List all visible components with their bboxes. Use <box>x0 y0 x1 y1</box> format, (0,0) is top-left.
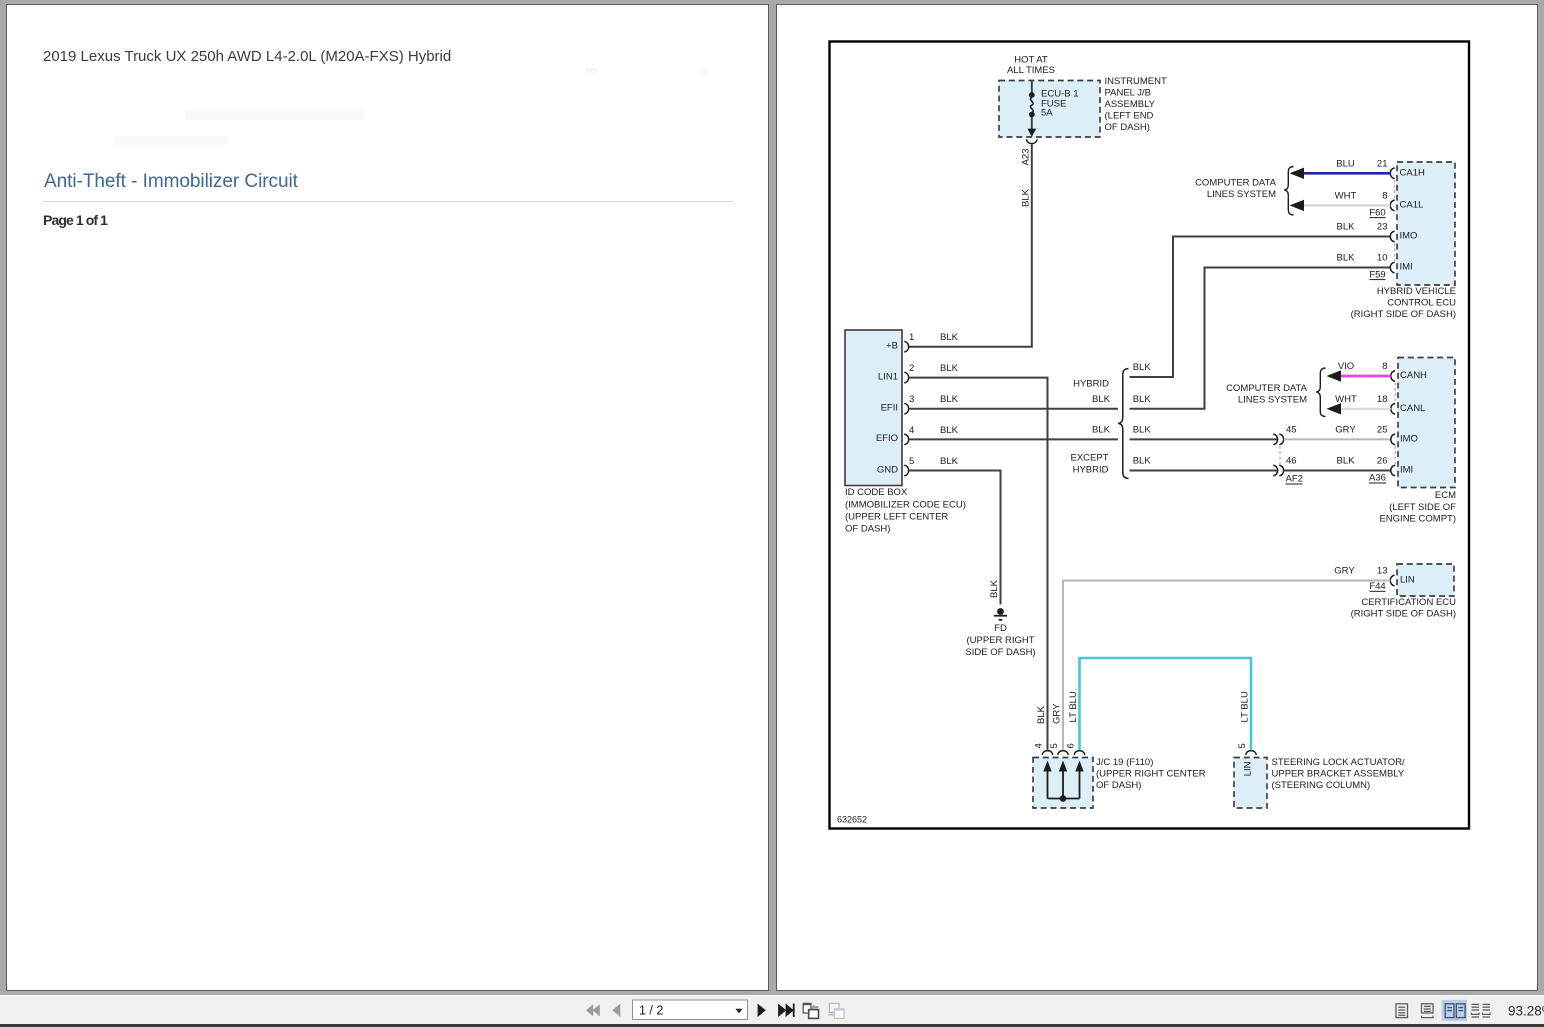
svg-text:WHT: WHT <box>1335 394 1357 405</box>
svg-text:8: 8 <box>1382 361 1387 372</box>
svg-text:(IMMOBILIZER CODE ECU): (IMMOBILIZER CODE ECU) <box>845 499 966 510</box>
svg-text:BLK: BLK <box>1092 394 1111 405</box>
svg-text:13: 13 <box>1377 566 1388 577</box>
svg-text:10: 10 <box>1377 253 1388 264</box>
svg-text:+B: +B <box>886 341 898 352</box>
HV ECU pin labels <box>1400 168 1425 273</box>
svg-text:5: 5 <box>1049 743 1060 748</box>
svg-text:ALL TIMES: ALL TIMES <box>1007 65 1055 76</box>
J/C 19 box (dashed) <box>1033 758 1093 809</box>
HV ECU pin arcs <box>1390 168 1394 273</box>
svg-text:5A: 5A <box>1041 108 1053 119</box>
svg-text:WHT: WHT <box>1335 191 1357 202</box>
svg-text:(RIGHT SIDE OF DASH): (RIGHT SIDE OF DASH) <box>1351 609 1456 620</box>
svg-text:A23: A23 <box>1021 149 1032 166</box>
svg-text:LINES SYSTEM: LINES SYSTEM <box>1207 189 1276 200</box>
svg-text:EXCEPT: EXCEPT <box>1070 452 1108 463</box>
svg-text:CONTROL ECU: CONTROL ECU <box>1387 298 1456 309</box>
arrow VIO <box>1327 370 1342 381</box>
wire EFII pin3 to brace <box>909 408 1118 410</box>
svg-text:CERTIFICATION ECU: CERTIFICATION ECU <box>1361 597 1456 608</box>
label ECM (LEFT SIDE OF ENGINE COMPT) <box>1379 490 1456 524</box>
page number combo box <box>633 1000 748 1020</box>
svg-text:93.28%: 93.28% <box>1508 1003 1544 1018</box>
arrow WHT (ECM) <box>1327 403 1342 414</box>
svg-text:BLK: BLK <box>1092 425 1111 436</box>
svg-text:LT BLU: LT BLU <box>1068 691 1079 722</box>
svg-text:UPPER BRACKET ASSEMBLY: UPPER BRACKET ASSEMBLY <box>1272 769 1405 780</box>
svg-text:EFII: EFII <box>881 403 898 414</box>
svg-text:CANH: CANH <box>1400 370 1427 381</box>
ground symbol FD <box>965 608 1035 658</box>
inline connector 46 (AF2) <box>1273 465 1283 476</box>
svg-text:8: 8 <box>1382 191 1387 202</box>
wire WHT CANL <box>1340 408 1391 410</box>
certification ECU pin arc <box>1390 575 1394 586</box>
svg-text:2: 2 <box>909 363 914 374</box>
ID code box pin arcs <box>904 341 908 476</box>
label ID CODE BOX <box>845 487 966 534</box>
ECM pin arcs <box>1391 371 1395 476</box>
svg-text:GND: GND <box>877 464 898 475</box>
svg-text:LINES SYSTEM: LINES SYSTEM <box>1238 395 1307 406</box>
svg-text:632652: 632652 <box>837 815 867 825</box>
svg-text:46: 46 <box>1286 456 1297 467</box>
svg-text:EFIO: EFIO <box>876 433 898 444</box>
J/C 19 pin arcs <box>1042 751 1085 755</box>
single page layout icon <box>1396 1004 1408 1018</box>
certification ECU box (dashed) <box>1397 564 1454 596</box>
svg-text:OF DASH): OF DASH) <box>1105 122 1150 133</box>
wire EFIO pin4 to brace <box>909 438 1118 440</box>
branch wire except-hybrid to connector 45 <box>1130 438 1278 440</box>
svg-text:ENGINE COMPT): ENGINE COMPT) <box>1379 513 1456 524</box>
last page button <box>778 1004 786 1017</box>
left page <box>6 4 769 991</box>
ECM box (dashed) <box>1398 358 1455 488</box>
wire BLU CA1H <box>1303 172 1390 175</box>
svg-text:F59: F59 <box>1369 269 1385 280</box>
faint remnants on left page <box>585 68 597 73</box>
svg-text:(UPPER LEFT CENTER: (UPPER LEFT CENTER <box>845 511 948 522</box>
branch wire hybrid IMO <box>1130 237 1391 378</box>
svg-text:OF DASH): OF DASH) <box>1096 780 1141 791</box>
wire GRY connector45 to ECM IMO <box>1284 438 1391 440</box>
svg-text:LT BLU: LT BLU <box>1240 691 1251 722</box>
svg-text:FD: FD <box>994 623 1007 634</box>
bottom toolbar <box>0 995 1544 1025</box>
branch wire hybrid IMI <box>1130 268 1391 409</box>
wire LT BLU J/C19 pin6 to steering lock pin5 <box>1080 658 1252 750</box>
svg-text:26: 26 <box>1377 456 1388 467</box>
svg-text:BLK: BLK <box>1337 456 1356 467</box>
right page <box>776 4 1538 991</box>
BLK labels on ID box wires <box>940 332 959 467</box>
svg-text:BLK: BLK <box>989 579 1000 598</box>
wire LIN1 pin2 down to J/C 19 pin 4 <box>909 378 1048 750</box>
label J/C 19 (F110) <box>1096 757 1206 791</box>
labels BLK right of brace <box>1133 362 1152 467</box>
arrow WHT <box>1290 200 1305 211</box>
continuous page layout icon <box>1422 1004 1434 1018</box>
svg-text:HYBRID: HYBRID <box>1073 378 1109 389</box>
svg-text:BLK: BLK <box>940 456 959 467</box>
svg-text:VIO: VIO <box>1338 361 1354 372</box>
svg-text:BLK: BLK <box>1337 222 1356 233</box>
label HYBRID VEHICLE CONTROL ECU <box>1351 286 1457 320</box>
label HOT AT ALL TIMES <box>1007 54 1055 76</box>
brace computer data lines (ECM) <box>1316 368 1325 417</box>
hybrid vehicle control ECU box (dashed) <box>1397 162 1455 285</box>
svg-text:PANEL J/B: PANEL J/B <box>1105 88 1151 99</box>
svg-text:HYBRID: HYBRID <box>1073 464 1109 475</box>
inline connector 45 (AF2) <box>1273 434 1283 445</box>
svg-text:BLK: BLK <box>1133 394 1152 405</box>
svg-text:(LEFT END: (LEFT END <box>1105 111 1154 122</box>
svg-text:5: 5 <box>909 456 914 467</box>
svg-text:STEERING LOCK ACTUATOR/: STEERING LOCK ACTUATOR/ <box>1272 757 1406 768</box>
two page continuous layout icon <box>1472 1004 1491 1017</box>
svg-text:3: 3 <box>909 394 914 405</box>
svg-text:(UPPER RIGHT CENTER: (UPPER RIGHT CENTER <box>1096 769 1206 780</box>
branch wire except-hybrid to connector 46 <box>1130 470 1278 472</box>
svg-text:BLK: BLK <box>1133 362 1152 373</box>
next view icon (disabled) <box>829 1003 844 1018</box>
svg-text:1: 1 <box>909 332 914 343</box>
svg-text:(RIGHT SIDE OF DASH): (RIGHT SIDE OF DASH) <box>1351 309 1456 320</box>
svg-text:HOT AT: HOT AT <box>1014 54 1048 65</box>
svg-text:IMO: IMO <box>1400 434 1418 445</box>
svg-text:AF2: AF2 <box>1286 474 1303 485</box>
ECM pin labels <box>1400 370 1427 476</box>
svg-text:SIDE OF DASH): SIDE OF DASH) <box>965 647 1035 658</box>
svg-text:CANL: CANL <box>1400 403 1425 414</box>
svg-text:1 / 2: 1 / 2 <box>639 1004 663 1018</box>
svg-text:GRY: GRY <box>1335 425 1356 436</box>
arrow BLU <box>1290 168 1305 179</box>
wire BLK connector46 to ECM IMI <box>1284 470 1391 472</box>
svg-text:LIN: LIN <box>1243 761 1254 776</box>
svg-text:GRY: GRY <box>1052 703 1063 724</box>
svg-text:BLK: BLK <box>940 394 959 405</box>
svg-text:BLK: BLK <box>940 363 959 374</box>
label STEERING LOCK ACTUATOR <box>1272 757 1406 791</box>
svg-text:BLK: BLK <box>1337 253 1356 264</box>
svg-text:BLK: BLK <box>940 425 959 436</box>
wire GRY to certification ECU <box>1063 581 1390 750</box>
ID code box pin labels <box>876 341 898 476</box>
steering lock pin arc <box>1246 751 1257 755</box>
svg-text:21: 21 <box>1377 159 1388 170</box>
svg-text:OF DASH): OF DASH) <box>845 523 890 534</box>
svg-text:(UPPER RIGHT: (UPPER RIGHT <box>966 635 1034 646</box>
svg-text:5: 5 <box>1237 743 1248 748</box>
svg-text:A36: A36 <box>1369 473 1386 484</box>
pin numbers 1-5 <box>909 332 914 467</box>
svg-text:F44: F44 <box>1369 581 1385 592</box>
svg-text:BLK: BLK <box>1021 188 1032 207</box>
svg-text:4: 4 <box>909 425 914 436</box>
previous view icon <box>803 1003 818 1018</box>
svg-text:INSTRUMENT: INSTRUMENT <box>1105 76 1167 87</box>
diagram outer border frame <box>830 42 1470 829</box>
svg-text:IMI: IMI <box>1400 262 1413 273</box>
svg-text:CA1H: CA1H <box>1400 168 1425 179</box>
big brace splitting EFII/EFIO <box>1118 369 1128 479</box>
previous page button (disabled) <box>612 1004 620 1017</box>
wire WHT CA1L <box>1303 204 1390 206</box>
two page layout icon (active) <box>1442 1000 1468 1021</box>
svg-text:(LEFT SIDE OF: (LEFT SIDE OF <box>1389 502 1456 513</box>
brace computer data lines (top) <box>1284 167 1293 216</box>
svg-text:BLK: BLK <box>1133 425 1152 436</box>
svg-text:COMPUTER DATA: COMPUTER DATA <box>1226 383 1308 394</box>
J/C 19 internal junction wires with up arrows <box>1043 761 1083 802</box>
svg-text:BLK: BLK <box>1036 705 1047 724</box>
ID CODE BOX (solid) <box>845 330 902 486</box>
svg-text:LIN1: LIN1 <box>878 371 898 382</box>
svg-text:IMO: IMO <box>1400 231 1418 242</box>
svg-text:45: 45 <box>1286 425 1297 436</box>
left page content <box>43 48 451 65</box>
wire BLK from fuse to +B pin 1 <box>909 144 1032 347</box>
wire GND pin5 to ground FD <box>909 471 1001 605</box>
wire VIO CANH <box>1340 375 1391 378</box>
fuse ECU-B 1 FUSE 5A <box>1027 81 1078 137</box>
svg-text:CA1L: CA1L <box>1400 200 1424 211</box>
svg-text:BLK: BLK <box>940 332 959 343</box>
svg-text:BLK: BLK <box>1133 456 1152 467</box>
instrument panel J/B assembly box (dashed) <box>999 81 1100 138</box>
steering lock actuator box (dashed) <box>1234 758 1267 809</box>
svg-text:IMI: IMI <box>1400 465 1413 476</box>
label INSTRUMENT PANEL J/B ASSEMBLY <box>1105 76 1167 133</box>
svg-text:LIN: LIN <box>1400 575 1415 586</box>
connector half-circle below fuse box <box>1026 139 1037 143</box>
svg-text:ASSEMBLY: ASSEMBLY <box>1105 99 1156 110</box>
svg-text:HYBRID VEHICLE: HYBRID VEHICLE <box>1377 286 1456 297</box>
svg-text:J/C 19 (F110): J/C 19 (F110) <box>1096 757 1153 768</box>
svg-text:(STEERING COLUMN): (STEERING COLUMN) <box>1272 780 1371 791</box>
svg-text:25: 25 <box>1377 425 1388 436</box>
svg-text:23: 23 <box>1377 222 1388 233</box>
svg-text:F60: F60 <box>1369 207 1385 218</box>
dashed link between connector 45 and 46 <box>1279 446 1281 464</box>
first page button (disabled) <box>586 1004 600 1016</box>
svg-text:GRY: GRY <box>1334 566 1355 577</box>
label CERTIFICATION ECU <box>1351 597 1457 620</box>
svg-text:ECM: ECM <box>1435 490 1456 501</box>
svg-text:6: 6 <box>1066 743 1077 748</box>
svg-text:COMPUTER DATA: COMPUTER DATA <box>1195 177 1277 188</box>
next page button <box>758 1004 766 1017</box>
svg-text:BLU: BLU <box>1336 159 1355 170</box>
svg-text:4: 4 <box>1034 743 1045 748</box>
svg-text:18: 18 <box>1377 394 1388 405</box>
svg-text:ID CODE BOX: ID CODE BOX <box>845 487 908 498</box>
